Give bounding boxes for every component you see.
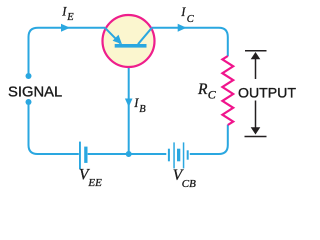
svg-text:E: E (66, 12, 74, 23)
svg-text:C: C (208, 88, 217, 102)
svg-text:C: C (187, 14, 195, 25)
svg-text:R: R (197, 81, 208, 98)
svg-text:B: B (139, 104, 146, 115)
svg-text:EE: EE (87, 177, 102, 189)
svg-text:OUTPUT: OUTPUT (238, 84, 296, 100)
svg-text:I: I (180, 5, 186, 19)
svg-text:CB: CB (182, 178, 196, 190)
svg-text:SIGNAL: SIGNAL (8, 85, 62, 101)
